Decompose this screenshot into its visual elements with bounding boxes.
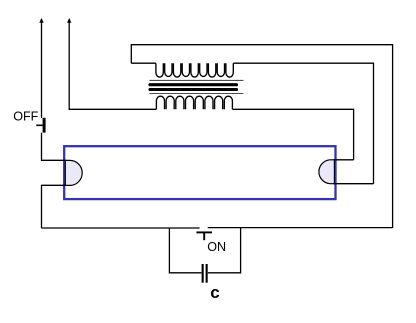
electrode: right filament xyxy=(319,160,374,184)
wire: tube left bottom electrode to bottom bus xyxy=(42,185,67,228)
electrode: left filament xyxy=(42,160,83,185)
wire: bottom bus (left part up to switch S2 gap) xyxy=(42,227,200,229)
wire: starter branch right leg xyxy=(208,228,241,273)
wire: mains line L vertical with arrow xyxy=(41,19,43,118)
wire: primary winding exit to tube right bottom electrode lead xyxy=(233,63,373,184)
inductor L1: ballast primary winding (9 loops) xyxy=(156,63,233,77)
node: arrow terminal L xyxy=(39,18,43,23)
transformer core: thin line top xyxy=(150,79,244,81)
svg-text:c: c xyxy=(210,283,219,302)
transformer core: thick bar 2 xyxy=(150,88,237,91)
transformer core: thick bar 1 xyxy=(150,83,237,86)
inductor: ballast primary winding entry xyxy=(131,62,156,64)
switch S2 (ON) blade xyxy=(196,232,212,240)
node: arrow terminal N xyxy=(67,18,71,23)
fluorescent tube envelope xyxy=(64,146,335,199)
capacitor C plates xyxy=(202,264,208,283)
transformer core: thin line bottom xyxy=(150,93,244,95)
inductor L2: ballast secondary winding (8 loops) xyxy=(156,96,232,109)
wire: top bus from ballast primary to outer right drop xyxy=(131,45,392,228)
switch S1 (OFF) xyxy=(36,118,45,133)
wire: mains line N vertical with arrow, to ballast secondary entry xyxy=(69,19,156,109)
wire: secondary winding exit to tube right top electrode lead xyxy=(232,109,353,160)
wire: switch S1 to tube left top electrode lead xyxy=(42,133,71,161)
svg-text:OFF: OFF xyxy=(13,110,38,124)
svg-text:ON: ON xyxy=(207,240,226,254)
wire: starter branch left leg xyxy=(169,228,201,273)
wire: bottom bus (right part from switch S2 gap) xyxy=(208,227,393,229)
